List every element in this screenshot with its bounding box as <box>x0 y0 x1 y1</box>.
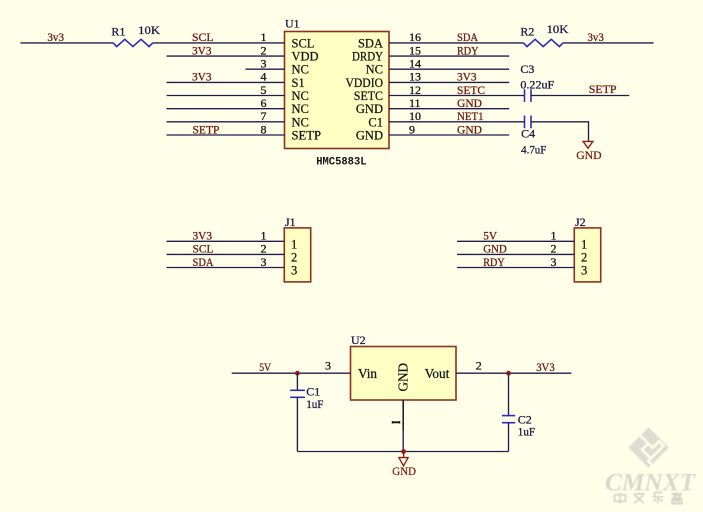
svg-text:6: 6 <box>261 96 267 110</box>
svg-text:3V3: 3V3 <box>536 360 555 374</box>
svg-text:14: 14 <box>409 57 421 71</box>
svg-text:1: 1 <box>291 237 297 251</box>
svg-text:12: 12 <box>409 83 421 97</box>
svg-text:C1: C1 <box>306 384 320 398</box>
svg-text:1: 1 <box>261 229 267 243</box>
connector J2 body <box>574 228 600 282</box>
svg-text:J1: J1 <box>285 215 296 229</box>
U2 pin number 1 (rotated, GND pin) <box>392 421 400 424</box>
svg-text:GND: GND <box>392 464 416 478</box>
svg-text:NC: NC <box>292 63 309 77</box>
wire R2 to 3v3 <box>563 42 654 44</box>
wire J2 pin 3 <box>457 267 574 269</box>
wire J1 pin 3 <box>167 267 285 269</box>
wire 3v3 to R1 (pin1) <box>21 42 114 44</box>
svg-text:5: 5 <box>261 83 267 97</box>
svg-text:3V3: 3V3 <box>193 229 213 243</box>
svg-text:C3: C3 <box>520 62 534 76</box>
wire stub to ground symbol <box>403 452 405 458</box>
svg-text:CMNXT: CMNXT <box>605 469 697 497</box>
wire U1 pin 4 <box>167 81 285 83</box>
wire junction to C1 <box>296 373 298 390</box>
svg-text:4.7uF: 4.7uF <box>521 143 547 157</box>
svg-text:VDD: VDD <box>292 50 319 64</box>
svg-text:NC: NC <box>292 115 309 129</box>
logo diamond <box>628 427 669 468</box>
ground symbol (near C4) <box>583 141 593 148</box>
svg-text:Vout: Vout <box>425 366 450 381</box>
svg-text:15: 15 <box>409 43 421 57</box>
svg-text:SCL: SCL <box>292 36 315 50</box>
wire J1 pin 2 <box>167 253 285 255</box>
wire C2 to bottom rail <box>508 423 510 452</box>
svg-text:2: 2 <box>581 250 587 264</box>
resistor R1 <box>113 39 153 46</box>
svg-text:3: 3 <box>325 359 331 373</box>
svg-text:SETC: SETC <box>354 89 383 103</box>
wire J2 pin 1 <box>457 240 574 242</box>
svg-text:3V3: 3V3 <box>192 70 212 84</box>
svg-text:SETC: SETC <box>457 83 485 97</box>
wire bottom rail <box>297 451 508 453</box>
wire U1 pin 12 to C3 <box>389 95 525 97</box>
svg-text:4: 4 <box>261 70 267 84</box>
svg-text:SETP: SETP <box>589 82 617 96</box>
svg-text:13: 13 <box>409 70 421 84</box>
svg-text:2: 2 <box>476 359 482 373</box>
svg-text:1: 1 <box>261 30 267 44</box>
IC U1 (HMC5883L) body <box>285 32 390 149</box>
wire U1 pin 15 <box>389 55 509 57</box>
svg-text:2: 2 <box>291 250 297 264</box>
svg-text:GND: GND <box>356 102 383 116</box>
svg-text:NET1: NET1 <box>457 109 484 123</box>
wire C3 to SETP <box>531 95 629 97</box>
wire U2 GND pin to rail <box>402 431 404 452</box>
junction dot (3V3 / C2) <box>506 371 511 376</box>
U1 right pin numbers 16-9 <box>409 30 421 136</box>
svg-text:9: 9 <box>409 122 415 136</box>
J1 inside pin names 1 2 3 <box>291 237 297 277</box>
wire U1 pin 10 to C4 <box>389 121 525 123</box>
J2 inside pin names 1 2 3 <box>581 237 587 277</box>
J2 outside pin numbers <box>551 229 557 269</box>
svg-text:SETP: SETP <box>193 122 220 136</box>
wire U1 pin 8 <box>167 134 285 136</box>
svg-text:2: 2 <box>261 242 267 256</box>
connector J1 body <box>284 228 310 282</box>
junction dot (bottom rail / GND) <box>401 449 406 454</box>
svg-text:GND: GND <box>356 129 383 143</box>
svg-text:U2: U2 <box>351 333 366 347</box>
svg-text:16: 16 <box>409 30 421 44</box>
svg-text:HMC5883L: HMC5883L <box>316 157 366 169</box>
wire U1 pin 7 <box>167 121 285 123</box>
WATERMARK logo <box>605 427 697 504</box>
svg-text:11: 11 <box>409 96 421 110</box>
wire U1 pin 3 <box>246 68 285 70</box>
svg-text:SDA: SDA <box>193 255 214 269</box>
svg-text:SDA: SDA <box>358 36 383 50</box>
svg-text:3v3: 3v3 <box>47 30 64 44</box>
J1 outside pin numbers <box>261 229 267 269</box>
svg-text:3: 3 <box>551 255 557 269</box>
U1 left pin names <box>292 36 322 142</box>
wire U1 pin 2 <box>167 55 285 57</box>
svg-text:DRDY: DRDY <box>352 50 383 64</box>
svg-text:SETP: SETP <box>292 129 322 143</box>
svg-text:8: 8 <box>261 122 267 136</box>
svg-text:NC: NC <box>292 89 309 103</box>
svg-text:R2: R2 <box>520 24 534 38</box>
svg-text:VDDIO: VDDIO <box>346 76 384 90</box>
svg-text:GND: GND <box>483 242 507 256</box>
resistor R2 <box>524 39 564 46</box>
wire U1 pin 14 <box>389 68 509 70</box>
regulator U2 body <box>351 347 457 401</box>
wire J2 pin 2 <box>457 253 574 255</box>
wire U1 pin 6 <box>167 108 285 110</box>
svg-text:2: 2 <box>261 43 267 57</box>
logo chinese characters <box>615 492 683 503</box>
svg-text:NC: NC <box>366 63 383 77</box>
svg-text:1: 1 <box>581 237 587 251</box>
svg-text:3: 3 <box>581 264 587 278</box>
svg-text:R1: R1 <box>111 24 125 38</box>
svg-text:0.22uF: 0.22uF <box>520 77 554 91</box>
svg-text:2: 2 <box>551 242 557 256</box>
U1 left pin numbers 1-8 <box>261 30 267 136</box>
svg-text:GND: GND <box>576 148 602 162</box>
capacitor C4 <box>525 116 532 129</box>
wire J1 pin 1 <box>167 240 285 242</box>
svg-text:5V: 5V <box>483 229 497 243</box>
svg-text:5V: 5V <box>259 360 271 374</box>
svg-text:SCL: SCL <box>193 242 214 256</box>
svg-text:RDY: RDY <box>457 43 479 57</box>
svg-text:1uF: 1uF <box>306 397 323 411</box>
wire C4 right <box>531 122 589 141</box>
svg-text:S1: S1 <box>292 76 305 90</box>
junction dot (5V / C1) <box>295 371 300 376</box>
svg-text:1: 1 <box>551 229 557 243</box>
wire 5V to U2 Vin <box>232 372 351 374</box>
svg-text:SDA: SDA <box>457 30 478 44</box>
svg-text:10K: 10K <box>547 22 569 36</box>
svg-text:C4: C4 <box>521 127 535 141</box>
wire R1 to U1 pin 1 <box>153 42 285 44</box>
svg-text:NC: NC <box>292 102 309 116</box>
svg-text:3: 3 <box>261 255 267 269</box>
wire U1 pin 9 <box>389 134 509 136</box>
capacitor C1 <box>290 390 305 397</box>
wire C1 to bottom rail <box>296 397 298 451</box>
svg-text:J2: J2 <box>575 215 586 229</box>
wire U1 pin 11 <box>389 108 509 110</box>
svg-text:GND: GND <box>396 363 411 392</box>
capacitor C3 <box>525 89 532 102</box>
svg-text:GND: GND <box>457 122 482 136</box>
svg-text:RDY: RDY <box>483 255 505 269</box>
svg-text:7: 7 <box>261 109 267 123</box>
pin U2 GND (vertical pin) <box>402 400 404 431</box>
capacitor C2 <box>502 416 515 423</box>
ground symbol (U2) <box>399 458 408 466</box>
wire U1 pin 5 <box>167 95 285 97</box>
svg-text:Vin: Vin <box>358 366 377 381</box>
svg-text:C1: C1 <box>368 115 383 129</box>
svg-text:3v3: 3v3 <box>588 30 604 44</box>
wire U1 pin 13 <box>389 81 509 83</box>
svg-text:3: 3 <box>261 57 267 71</box>
svg-text:10K: 10K <box>138 23 160 37</box>
wire U1 pin 16 to R2 <box>389 42 524 44</box>
svg-text:3V3: 3V3 <box>192 43 212 57</box>
svg-text:3: 3 <box>291 264 297 278</box>
wire U2 Vout to 3V3 <box>456 372 572 374</box>
svg-text:U1: U1 <box>285 17 300 31</box>
svg-text:10: 10 <box>409 109 421 123</box>
svg-text:SCL: SCL <box>192 30 214 44</box>
svg-text:GND: GND <box>457 96 482 110</box>
svg-text:1uF: 1uF <box>518 425 535 439</box>
svg-text:3V3: 3V3 <box>457 70 477 84</box>
U1 right pin names <box>346 36 384 142</box>
wire junction to C2 <box>508 373 510 415</box>
